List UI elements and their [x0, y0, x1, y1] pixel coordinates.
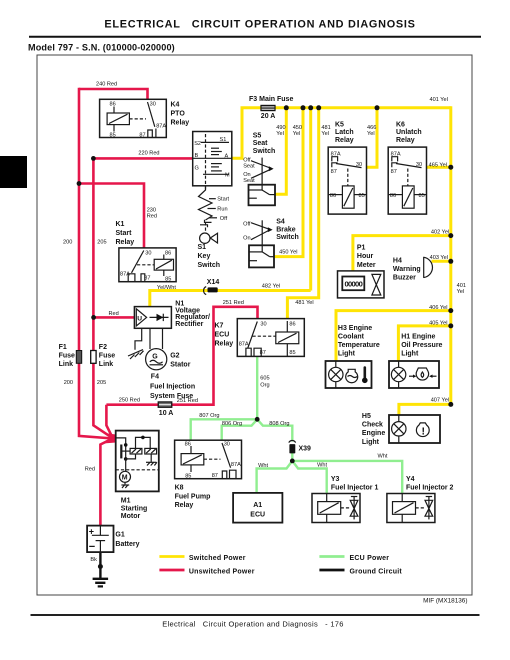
- svg-text:85: 85: [359, 193, 365, 199]
- svg-text:20 A: 20 A: [261, 113, 276, 120]
- wire 490 Yel to seat switch: [275, 108, 286, 195]
- svg-text:Yel: Yel: [276, 131, 284, 137]
- brake switch S4: [243, 220, 274, 267]
- svg-text:Yel: Yel: [321, 131, 329, 137]
- svg-text:Y3: Y3: [331, 476, 340, 483]
- svg-text:Link: Link: [59, 361, 73, 368]
- svg-text:S2: S2: [194, 141, 201, 147]
- wire 405 Yel to H1 light: [398, 326, 450, 361]
- battery G1: [87, 526, 113, 553]
- svg-text:30: 30: [356, 162, 362, 168]
- light H5: [389, 415, 440, 443]
- svg-text:Starting: Starting: [121, 505, 147, 512]
- svg-text:87: 87: [331, 169, 337, 175]
- node dot splice: [290, 459, 295, 464]
- svg-text:Start: Start: [116, 230, 133, 237]
- node dots on 401 bus: [448, 165, 453, 170]
- wire 251 Red from fuse to K7: [172, 307, 258, 405]
- svg-text:Brake: Brake: [276, 226, 296, 233]
- svg-text:S1: S1: [198, 244, 207, 251]
- svg-text:PTO: PTO: [171, 111, 186, 118]
- svg-text:200: 200: [64, 380, 73, 386]
- svg-text:Motor: Motor: [121, 513, 141, 520]
- key symbol S1: [200, 233, 218, 243]
- wire key A to F3 bus: [232, 108, 451, 159]
- svg-text:Stator: Stator: [170, 361, 191, 368]
- wire 407 Yel to H5 light: [399, 404, 451, 415]
- svg-text:K1: K1: [116, 221, 125, 228]
- svg-text:482 Yel: 482 Yel: [262, 284, 280, 290]
- wire 450 Yel to brake switch: [274, 108, 303, 257]
- svg-text:Hour: Hour: [357, 253, 374, 260]
- svg-text:MIF (MX18136): MIF (MX18136): [423, 598, 467, 605]
- svg-text:Check: Check: [362, 422, 383, 429]
- svg-text:30: 30: [416, 162, 422, 168]
- svg-text:Ground Circuit: Ground Circuit: [350, 568, 403, 575]
- buzzer H4: [424, 257, 433, 278]
- svg-text:Buzzer: Buzzer: [393, 275, 416, 282]
- svg-text:M: M: [225, 173, 230, 179]
- svg-text:85: 85: [289, 350, 295, 356]
- svg-text:Yel: Yel: [367, 131, 375, 137]
- wire 482 Yel drop to X14 line: [309, 108, 312, 291]
- wire 250 Red drop to starter node: [106, 405, 113, 439]
- wire 466 Yel to K5: [367, 108, 378, 167]
- svg-text:Fuel Injector 1: Fuel Injector 1: [331, 485, 379, 492]
- svg-text:Off: Off: [220, 216, 228, 222]
- svg-text:402 Yel: 402 Yel: [431, 230, 449, 236]
- svg-text:87A: 87A: [231, 462, 241, 468]
- svg-text:H5: H5: [362, 413, 371, 420]
- svg-text:Red: Red: [85, 466, 95, 472]
- svg-text:30: 30: [150, 102, 156, 108]
- legend ECU power: [319, 555, 344, 558]
- relay K5: [328, 147, 366, 214]
- svg-text:Relay: Relay: [215, 341, 234, 348]
- svg-text:Relay: Relay: [396, 137, 415, 144]
- wire 605 Org from K7-87: [256, 356, 258, 419]
- svg-text:403 Yel: 403 Yel: [430, 255, 448, 261]
- wire Yel/Wht and 482 Yel through X14: [150, 291, 311, 307]
- svg-text:Relay: Relay: [116, 239, 135, 246]
- svg-text:87A: 87A: [156, 124, 166, 130]
- svg-text:Relay: Relay: [335, 137, 354, 144]
- svg-text:Oil Pressure: Oil Pressure: [401, 342, 442, 349]
- relay K8: [175, 440, 242, 479]
- svg-text:Light: Light: [338, 351, 356, 358]
- svg-text:806 Org: 806 Org: [222, 421, 242, 427]
- light H1: [389, 361, 439, 388]
- seat switch S5: [243, 158, 275, 206]
- wire 205 vertical: [93, 158, 113, 438]
- svg-text:K6: K6: [396, 121, 405, 128]
- svg-text:Wht: Wht: [378, 454, 388, 460]
- ECU A1: [233, 493, 282, 523]
- svg-text:Off: Off: [243, 222, 251, 228]
- svg-text:F2: F2: [99, 344, 107, 351]
- svg-text:Engine: Engine: [362, 430, 385, 437]
- svg-text:85: 85: [165, 276, 171, 282]
- svg-text:Y4: Y4: [406, 476, 415, 483]
- legend ground circuit: [319, 569, 344, 572]
- svg-text:Switch: Switch: [276, 234, 299, 241]
- svg-text:85: 85: [185, 474, 191, 480]
- svg-text:Relay: Relay: [171, 120, 190, 127]
- svg-text:Fuel Injection: Fuel Injection: [150, 383, 195, 390]
- diagram frame: [37, 55, 472, 595]
- svg-text:Switch: Switch: [253, 148, 276, 155]
- svg-text:H1 Engine: H1 Engine: [401, 333, 435, 340]
- svg-text:86: 86: [165, 250, 171, 256]
- svg-text:ECU Power: ECU Power: [350, 555, 390, 562]
- svg-text:M1: M1: [121, 498, 131, 505]
- svg-text:Link: Link: [99, 361, 113, 368]
- svg-text:Seat: Seat: [253, 140, 268, 147]
- svg-text:Relay: Relay: [175, 502, 194, 509]
- svg-text:K4: K4: [171, 102, 180, 109]
- svg-text:200: 200: [63, 240, 72, 246]
- key switch S1 box: [193, 132, 232, 191]
- svg-text:Electrical Circuit Operation: Electrical Circuit Operation and Diagnos…: [162, 620, 344, 629]
- legend unswitched power: [159, 569, 184, 572]
- svg-text:30: 30: [145, 250, 151, 256]
- wire 240 Red top horizontal: [79, 89, 148, 99]
- wire 401 Yel right bus vertical: [449, 106, 452, 404]
- svg-text:807 Org: 807 Org: [199, 413, 219, 419]
- svg-text:Switched Power: Switched Power: [189, 555, 246, 562]
- wire Bk battery ground: [99, 552, 101, 579]
- connector X39: [289, 440, 311, 453]
- svg-text:ECU: ECU: [215, 332, 230, 339]
- wire 465 Yel to K6: [427, 166, 451, 169]
- svg-text:G2: G2: [170, 353, 179, 360]
- svg-text:G: G: [152, 354, 158, 361]
- stator G2: [146, 328, 167, 370]
- svg-text:Bk: Bk: [90, 557, 97, 563]
- svg-text:F3 Main Fuse: F3 Main Fuse: [249, 96, 293, 103]
- svg-text:P1: P1: [357, 245, 366, 252]
- svg-text:87: 87: [139, 133, 145, 139]
- relay K7: [237, 319, 304, 357]
- legend switched power: [159, 555, 184, 558]
- wire 403 Yel to buzzer: [432, 260, 451, 263]
- legend: [159, 555, 402, 576]
- svg-text:240 Red: 240 Red: [96, 81, 117, 87]
- wire Red to N1 regulator: [94, 316, 135, 319]
- ground battery: [93, 579, 109, 587]
- svg-text:Yel: Yel: [293, 131, 301, 137]
- wire 807 Org to K8-86: [191, 419, 258, 440]
- wire X39 to splice: [291, 453, 293, 461]
- regulator N1: [134, 307, 171, 329]
- svg-text:F4: F4: [151, 373, 159, 380]
- svg-text:Key: Key: [198, 253, 211, 260]
- fuse F4: [158, 402, 172, 407]
- svg-text:X14: X14: [207, 279, 220, 286]
- svg-text:Light: Light: [362, 439, 380, 446]
- svg-text:87A: 87A: [239, 342, 249, 348]
- svg-text:Fuse: Fuse: [59, 353, 75, 360]
- svg-text:Org: Org: [260, 383, 269, 389]
- svg-text:Fuse: Fuse: [99, 353, 115, 360]
- wire 481 Yel to K7 coil: [287, 108, 318, 319]
- svg-text:Wht: Wht: [317, 462, 327, 468]
- svg-text:Temperature: Temperature: [338, 342, 380, 349]
- svg-text:ECU: ECU: [250, 512, 265, 519]
- svg-text:450 Yel: 450 Yel: [279, 249, 297, 255]
- light H3: [326, 361, 372, 388]
- svg-text:10 A: 10 A: [159, 410, 174, 417]
- node dot regulator branch: [91, 315, 96, 320]
- wire 230 Red to K1: [79, 184, 144, 248]
- node dot ground: [98, 564, 103, 569]
- svg-text:00000: 00000: [344, 280, 362, 289]
- svg-text:405 Yel: 405 Yel: [429, 320, 447, 326]
- svg-text:Red: Red: [147, 213, 157, 219]
- svg-text:250 Red: 250 Red: [119, 397, 140, 403]
- wire 808 Org to X39: [257, 419, 292, 441]
- wire Wht to Y4: [292, 461, 402, 493]
- fuse F3: [261, 105, 275, 110]
- svg-text:86: 86: [185, 442, 191, 448]
- svg-text:Run: Run: [217, 206, 227, 212]
- svg-text:M: M: [122, 475, 128, 482]
- svg-text:−: −: [89, 541, 95, 553]
- svg-text:251 Red: 251 Red: [223, 300, 244, 306]
- svg-text:On: On: [243, 236, 250, 242]
- wire 220 Red to key switch B: [93, 157, 193, 160]
- footer rule: [31, 614, 480, 616]
- wire 402 Yel to hour meter: [353, 236, 451, 271]
- svg-text:S5: S5: [253, 133, 262, 140]
- svg-text:86: 86: [390, 193, 396, 199]
- wire 406 Yel to H3 light: [336, 311, 451, 361]
- svg-text:G1: G1: [115, 531, 124, 538]
- svg-text:86: 86: [110, 102, 116, 108]
- svg-text:Wht: Wht: [258, 463, 268, 469]
- svg-text:!: !: [421, 425, 425, 437]
- svg-text:K5: K5: [335, 121, 344, 128]
- page edge tab: [0, 156, 27, 188]
- svg-text:481 Yel: 481 Yel: [295, 300, 313, 306]
- svg-text:808 Org: 808 Org: [269, 421, 289, 427]
- svg-text:Seat: Seat: [243, 164, 255, 170]
- hour meter P1: [338, 271, 385, 298]
- svg-text:220 Red: 220 Red: [138, 151, 159, 157]
- wire 200 left vertical: [79, 88, 113, 439]
- svg-text:605: 605: [260, 376, 269, 382]
- node dots on F3 bus: [284, 105, 289, 110]
- svg-text:30: 30: [224, 442, 230, 448]
- svg-text:G: G: [195, 166, 199, 172]
- node dot 220/205: [91, 156, 96, 161]
- svg-text:K8: K8: [175, 485, 184, 492]
- svg-text:Yel: Yel: [457, 289, 465, 295]
- svg-text:Yel/Wht: Yel/Wht: [157, 285, 177, 291]
- svg-text:30: 30: [260, 321, 266, 327]
- svg-text:Fuel Pump: Fuel Pump: [175, 493, 211, 500]
- svg-text:Switch: Switch: [198, 262, 221, 269]
- svg-text:87: 87: [391, 169, 397, 175]
- svg-text:Meter: Meter: [357, 262, 376, 269]
- starting motor M1: [116, 431, 159, 492]
- svg-text:Coolant: Coolant: [338, 333, 365, 340]
- svg-text:Model 797 - S.N. (010000-02000: Model 797 - S.N. (010000-020000): [28, 43, 175, 53]
- svg-text:S4: S4: [276, 219, 285, 226]
- svg-text:Red: Red: [109, 311, 119, 317]
- wire Wht to Y3: [292, 461, 326, 494]
- fuse links F1 F2: [76, 351, 96, 364]
- svg-text:Start: Start: [217, 197, 229, 203]
- svg-text:87: 87: [260, 350, 266, 356]
- svg-text:86: 86: [289, 321, 295, 327]
- connector X14: [204, 279, 220, 295]
- svg-text:K7: K7: [215, 323, 224, 330]
- node dot 230 branch: [77, 181, 82, 186]
- svg-text:X39: X39: [299, 446, 312, 453]
- svg-text:Battery: Battery: [115, 541, 139, 548]
- wire 250 Red to F4 fuse: [106, 403, 158, 406]
- svg-text:407 Yel: 407 Yel: [431, 398, 449, 404]
- svg-text:Unlatch: Unlatch: [396, 129, 422, 136]
- key switch positions zigzag: [199, 186, 230, 233]
- svg-text:Light: Light: [401, 351, 419, 358]
- wire Wht to A1 ECU: [257, 461, 293, 493]
- svg-text:H4: H4: [393, 257, 402, 264]
- svg-text:406 Yel: 406 Yel: [429, 305, 447, 311]
- title rule: [29, 36, 481, 38]
- svg-text:Latch: Latch: [335, 129, 354, 136]
- svg-text:87: 87: [212, 473, 218, 479]
- wire Red battery feed: [100, 438, 113, 525]
- svg-text:H3 Engine: H3 Engine: [338, 325, 372, 332]
- svg-text:401 Yel: 401 Yel: [430, 97, 448, 103]
- svg-text:Seat: Seat: [243, 178, 255, 184]
- svg-text:Fuel Injector 2: Fuel Injector 2: [406, 485, 454, 492]
- svg-text:251 Red: 251 Red: [177, 398, 198, 404]
- svg-text:86: 86: [330, 193, 336, 199]
- svg-text:U: U: [137, 315, 142, 322]
- svg-text:205: 205: [97, 240, 106, 246]
- svg-text:85: 85: [110, 132, 116, 138]
- relay K6: [388, 147, 426, 214]
- svg-text:465 Yel: 465 Yel: [429, 162, 447, 168]
- fuel injector Y3: [312, 494, 360, 523]
- relay K4: [100, 99, 167, 138]
- svg-text:85: 85: [419, 193, 425, 199]
- fuel injector Y4: [387, 494, 435, 523]
- wire 806 Org to K8-30: [222, 419, 258, 440]
- relay K1: [119, 248, 176, 282]
- svg-text:205: 205: [97, 380, 106, 386]
- svg-text:A1: A1: [253, 502, 262, 509]
- node dot org junction: [255, 417, 260, 422]
- svg-text:Warning: Warning: [393, 266, 421, 273]
- ground N1: [128, 328, 144, 359]
- svg-text:ELECTRICAL CIRCUIT OPERATION: ELECTRICAL CIRCUIT OPERATION AND DIAGNOS…: [104, 19, 415, 31]
- svg-text:Unswitched Power: Unswitched Power: [189, 568, 255, 575]
- svg-text:F1: F1: [59, 344, 67, 351]
- node starter junction: [103, 433, 116, 444]
- svg-text:Rectifier: Rectifier: [175, 321, 203, 328]
